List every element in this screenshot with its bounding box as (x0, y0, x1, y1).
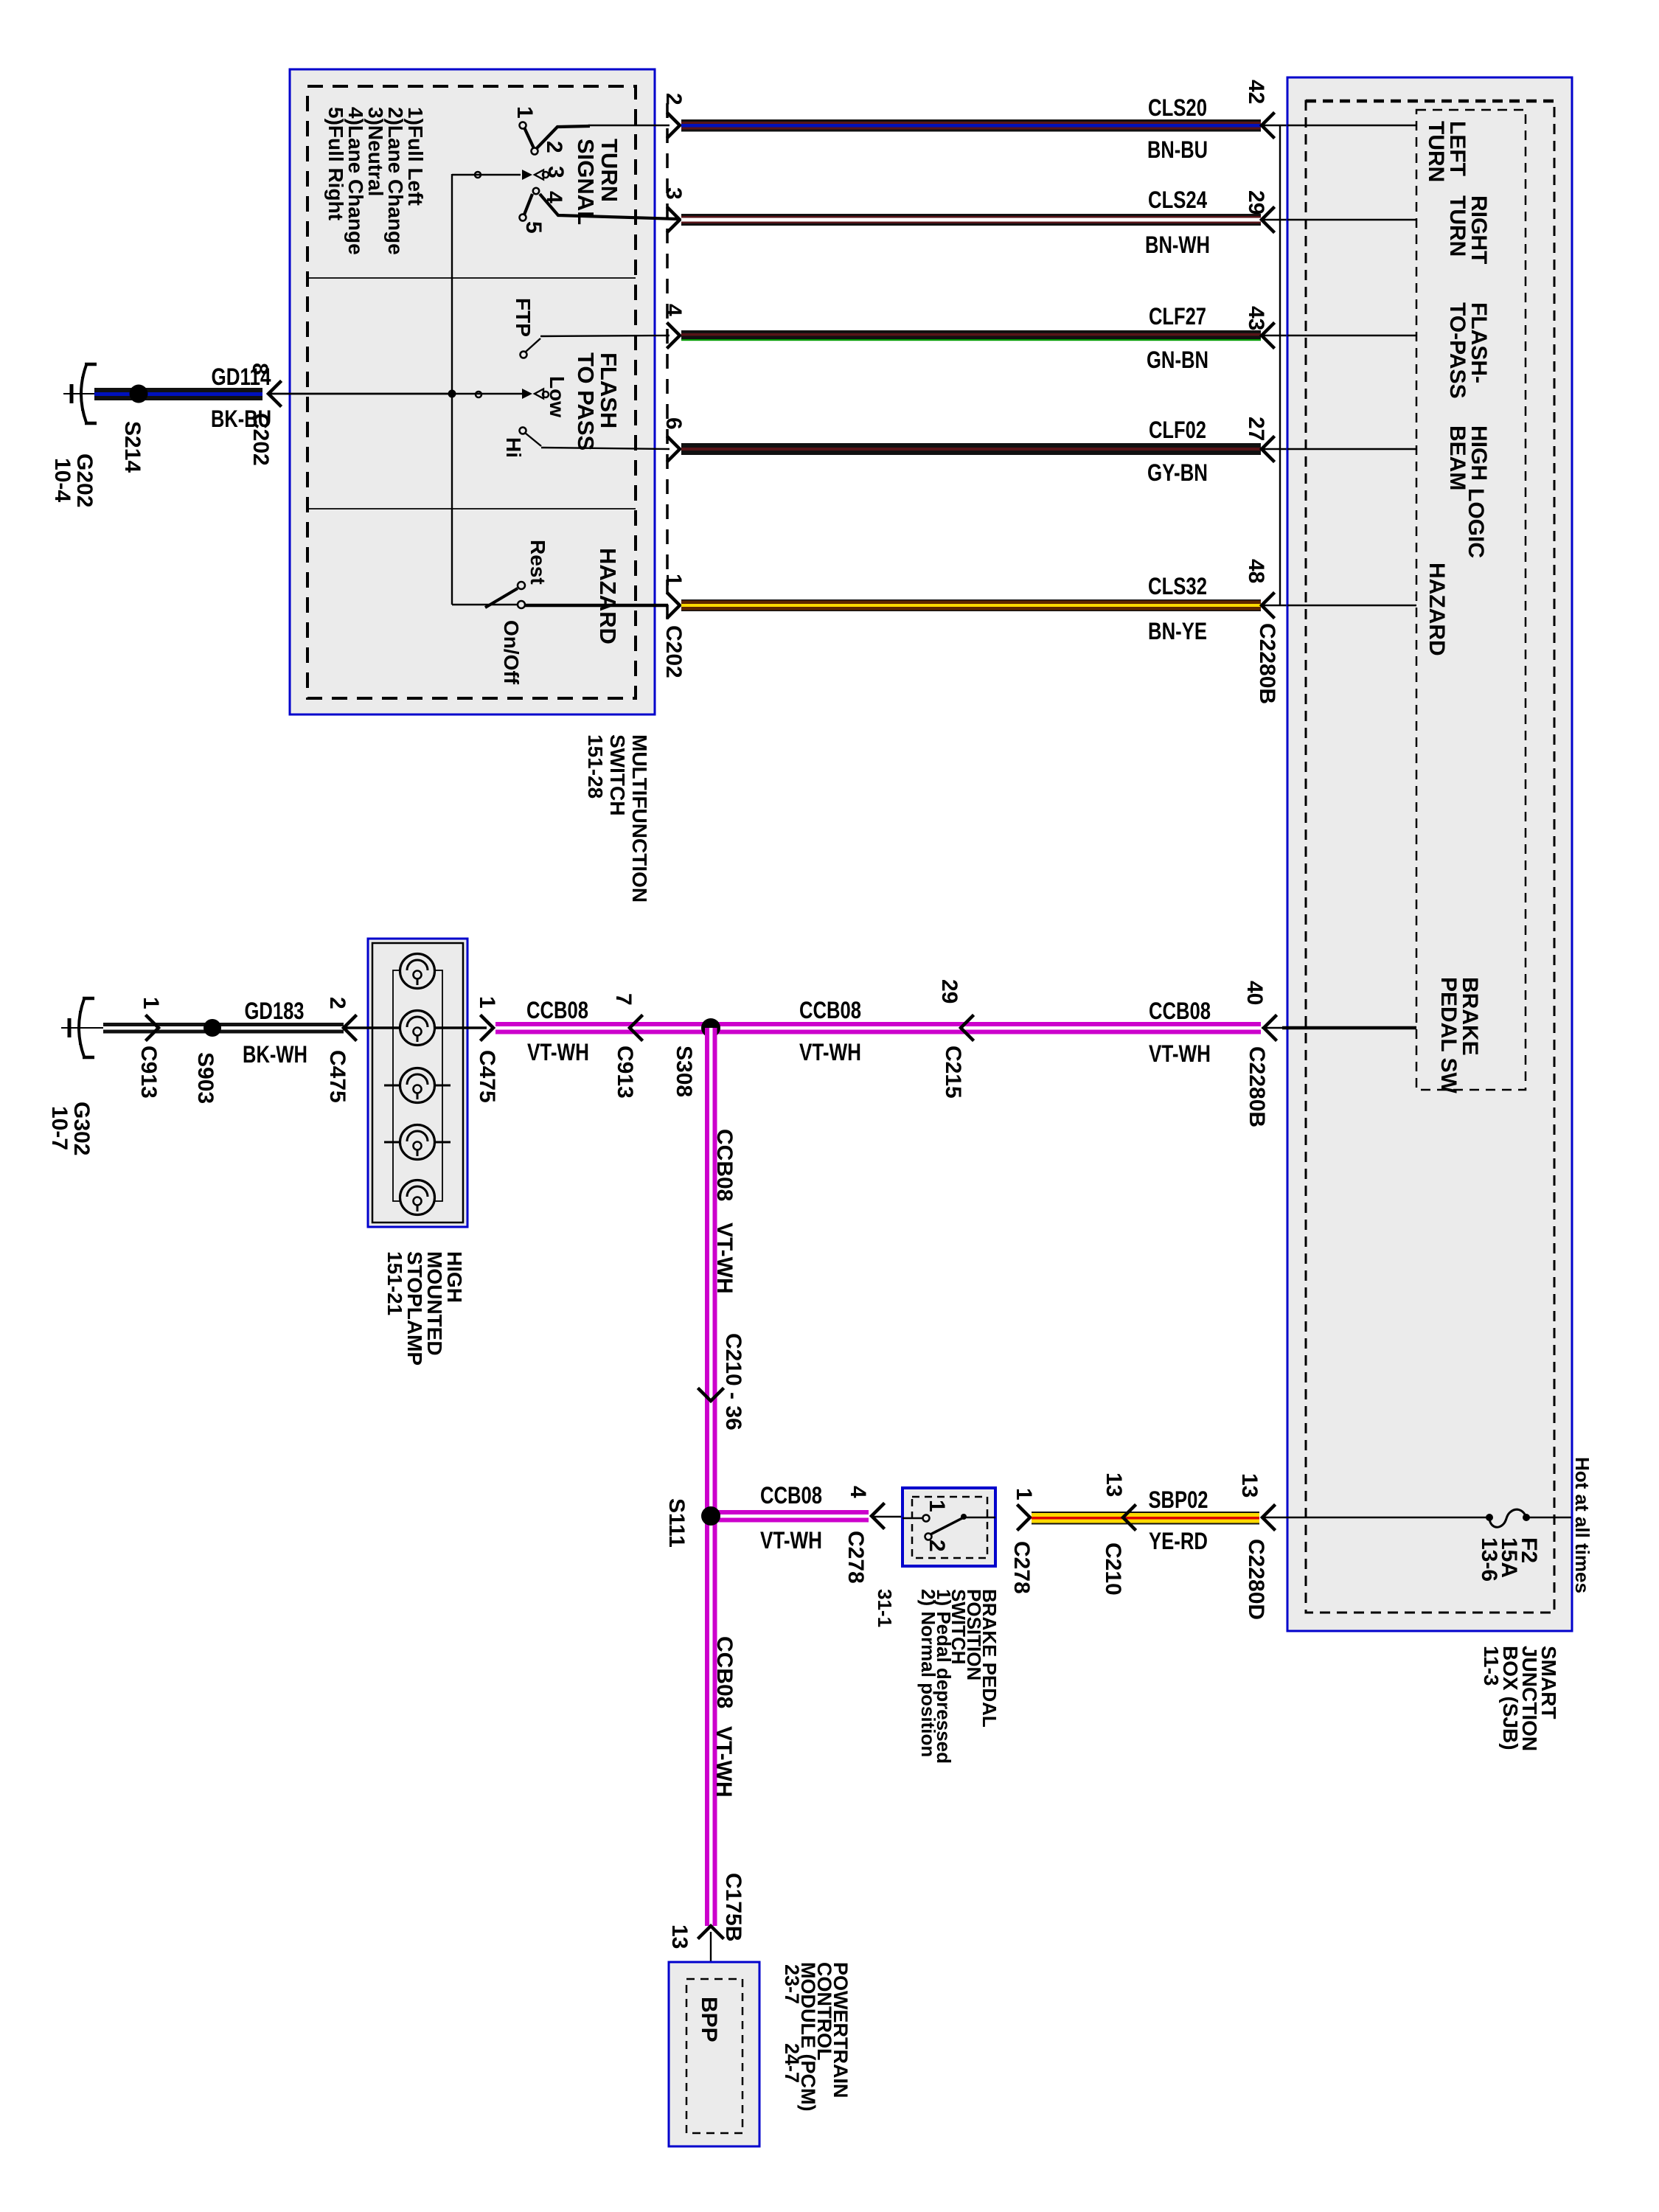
PCM inner dashed outline (686, 1979, 742, 2133)
svg-text:GN-BN: GN-BN (1147, 347, 1208, 373)
svg-text:Hot at all times: Hot at all times (1571, 1457, 1593, 1593)
svg-text:SWITCH: SWITCH (606, 734, 629, 815)
stoplamp feed wire through bulb 2 (344, 1026, 400, 1029)
wire CLS24 BN-WH (681, 214, 1261, 216)
svg-text:TURN: TURN (1424, 121, 1448, 182)
svg-text:CCB08: CCB08 (712, 1129, 737, 1201)
multifunction switch box (MFS) 151-28 (290, 69, 655, 714)
stoplamp bulb 5 (400, 1180, 435, 1215)
svg-text:C215: C215 (941, 1046, 965, 1099)
pin 27 arrow (C2280B) (1262, 437, 1273, 461)
svg-text:MULTIFUNCTION: MULTIFUNCTION (628, 734, 651, 902)
bulb stubs (384, 1085, 400, 1087)
turn signal lower contacts 4-5 (533, 188, 539, 194)
svg-text:Hi: Hi (502, 437, 525, 458)
svg-text:8: 8 (248, 363, 272, 375)
svg-text:C210 - 36: C210 - 36 (721, 1333, 745, 1430)
svg-text:PEDAL SW: PEDAL SW (1436, 977, 1461, 1093)
pin 4 arrow (C202) (668, 324, 680, 347)
turn signal switch contacts (537, 126, 590, 148)
svg-text:BEAM: BEAM (1445, 425, 1470, 490)
flash-to-pass Low pivot (268, 393, 452, 394)
wire from C202 pin 8 into MFS (271, 393, 452, 394)
inline connector C210-36 arrow (699, 1389, 723, 1401)
stoplamp bulb 1 (400, 954, 435, 989)
svg-text:13: 13 (1237, 1473, 1262, 1498)
pin 2 arrow (C475) (344, 1016, 355, 1040)
svg-text:4: 4 (661, 304, 686, 316)
svg-text:HAZARD: HAZARD (1425, 563, 1449, 656)
wire GD183 BK-WH (103, 1023, 344, 1026)
svg-text:BPP: BPP (697, 1997, 721, 2042)
pin 2 arrow (C202) (668, 114, 680, 137)
svg-text:TO PASS: TO PASS (573, 352, 599, 451)
wire GD114 BK-BU (94, 388, 262, 392)
pin 1 arrow (C475 right) (481, 1016, 493, 1040)
svg-text:2: 2 (661, 93, 686, 105)
hazard output wire to pin 1 (bold) (525, 604, 668, 608)
brake pedal position switch box (902, 1488, 995, 1566)
svg-text:CCB08: CCB08 (1149, 998, 1211, 1024)
svg-text:BN-BU: BN-BU (1147, 136, 1208, 163)
svg-text:1: 1 (512, 106, 537, 119)
svg-text:S111: S111 (664, 1498, 689, 1548)
splice S111 (701, 1506, 720, 1526)
svg-text:On/Off: On/Off (500, 620, 523, 685)
svg-text:S903: S903 (193, 1052, 218, 1104)
wire stub into PCM (710, 1932, 712, 1979)
smart junction box (SJB) (1287, 77, 1572, 1631)
svg-text:BN-WH: BN-WH (1145, 232, 1210, 258)
powertrain control module box (669, 1962, 759, 2146)
svg-text:3: 3 (661, 187, 686, 200)
svg-text:6: 6 (661, 417, 686, 430)
hazard switch (452, 604, 517, 605)
splice S308 (701, 1018, 720, 1037)
BPS output line (964, 1517, 995, 1518)
pin 13 arrow (C175B) (699, 1926, 723, 1938)
SJB outer dashed outline top emphasis (1306, 100, 1554, 103)
ground G202 (63, 393, 106, 394)
svg-text:BN-YE: BN-YE (1148, 618, 1207, 644)
svg-text:10-7: 10-7 (47, 1106, 72, 1150)
stoplamp internal bus rectangle (393, 970, 442, 1201)
SJB internal stub high beam (1262, 448, 1416, 450)
wire CLF02 GY-BN (681, 443, 1261, 448)
svg-text:YE-RD: YE-RD (1149, 1528, 1208, 1554)
svg-text:40: 40 (1242, 981, 1267, 1005)
pin 1 arrow (C913) (147, 1016, 159, 1040)
svg-text:7: 7 (611, 993, 636, 1006)
svg-text:29: 29 (937, 979, 961, 1004)
svg-text:C202: C202 (248, 413, 273, 466)
svg-text:TURN: TURN (597, 139, 622, 202)
MFS internal bus wire (common feed) (451, 174, 453, 605)
svg-text:BK-WH: BK-WH (243, 1041, 307, 1068)
svg-text:C2280B: C2280B (1255, 623, 1279, 704)
svg-text:42: 42 (1244, 80, 1268, 104)
pin 7 arrow (C913) (630, 1016, 641, 1040)
svg-text:VT-WH: VT-WH (799, 1039, 861, 1065)
svg-text:151-28: 151-28 (584, 734, 607, 799)
fuse F2 15A symbol (1489, 1509, 1526, 1527)
svg-text:VT-WH: VT-WH (527, 1039, 589, 1065)
SJB stub lines redrawn over fill (1287, 125, 1416, 126)
svg-text:CLF02: CLF02 (1149, 417, 1206, 443)
svg-text:5)Full Right: 5)Full Right (324, 107, 347, 220)
pin 1 arrow (C202) (668, 594, 680, 617)
splice S214 (130, 385, 148, 403)
svg-text:27: 27 (1244, 417, 1268, 441)
wire CLS20 BN-BU (681, 119, 1261, 122)
BPS contact 1 (902, 1517, 923, 1519)
svg-text:2) Normal position: 2) Normal position (917, 1589, 939, 1757)
svg-text:GD183: GD183 (245, 998, 305, 1024)
svg-text:1: 1 (475, 996, 499, 1009)
svg-text:S214: S214 (120, 421, 145, 473)
svg-text:Low: Low (546, 376, 568, 417)
svg-text:C210: C210 (1101, 1543, 1125, 1596)
svg-text:43: 43 (1244, 306, 1268, 330)
svg-text:151-21: 151-21 (383, 1251, 406, 1315)
svg-text:G302: G302 (69, 1102, 94, 1155)
svg-text:FLASH: FLASH (596, 352, 622, 428)
svg-text:13: 13 (667, 1924, 692, 1949)
turn signal pivot (452, 174, 521, 175)
svg-text:10-4: 10-4 (50, 458, 74, 502)
svg-text:C175B: C175B (721, 1873, 745, 1941)
svg-text:CLS32: CLS32 (1148, 573, 1207, 599)
svg-text:VT-WH: VT-WH (1149, 1040, 1211, 1067)
svg-text:Rest: Rest (526, 540, 549, 585)
svg-text:TO-PASS: TO-PASS (1445, 302, 1470, 399)
splice S903 (204, 1019, 221, 1037)
connector C202 dashed line (666, 103, 669, 623)
svg-text:VT-WH: VT-WH (712, 1726, 736, 1798)
MFS section divider (flash to pass / hazard) (307, 508, 636, 509)
svg-text:13-6: 13-6 (1477, 1537, 1501, 1582)
SJB internal stub flash-to-pass (1262, 335, 1416, 336)
svg-text:TURN: TURN (1445, 195, 1470, 257)
svg-text:VT-WH: VT-WH (760, 1527, 822, 1554)
stoplamp bulb 3 (400, 1068, 435, 1103)
svg-text:2: 2 (925, 1540, 949, 1552)
BPS contact 2 and blade (925, 1534, 932, 1540)
wire CCB08 VT-WH (stoplamp to SJB) (495, 1022, 1261, 1026)
svg-text:FTP: FTP (512, 298, 535, 337)
ground G302 (61, 1027, 104, 1029)
svg-text:LOGIC: LOGIC (1464, 488, 1488, 558)
svg-text:1: 1 (139, 997, 163, 1009)
pin 29 arrow (C2280B) (1262, 208, 1273, 232)
svg-text:24-7: 24-7 (781, 2043, 803, 2083)
svg-text:C2280D: C2280D (1244, 1539, 1268, 1620)
MFS section divider (turn signal / flash to pass) (307, 277, 636, 279)
svg-text:CCB08: CCB08 (799, 997, 861, 1023)
svg-text:SBP02: SBP02 (1149, 1486, 1208, 1513)
flash-to-pass Hi contact (520, 428, 526, 434)
BPS inner dashed outline (912, 1497, 987, 1558)
connector C2280B line (1279, 125, 1281, 605)
svg-text:GY-BN: GY-BN (1147, 459, 1208, 486)
svg-text:11-3: 11-3 (1480, 1646, 1503, 1686)
svg-text:C202: C202 (661, 625, 686, 678)
svg-text:29: 29 (1244, 190, 1268, 215)
svg-text:C475: C475 (325, 1050, 349, 1103)
svg-text:C2280B: C2280B (1245, 1046, 1269, 1127)
svg-text:C278: C278 (1009, 1541, 1034, 1594)
svg-text:1: 1 (661, 574, 686, 586)
pin 43 arrow (C2280B) (1262, 324, 1273, 347)
stoplamp bulb 4 (400, 1125, 435, 1160)
svg-text:G202: G202 (72, 453, 97, 507)
pin 8 arrow (C202) (268, 382, 280, 406)
svg-text:CCB08: CCB08 (760, 1482, 822, 1509)
svg-text:CCB08: CCB08 (526, 997, 588, 1023)
stoplamp bulb 2 (400, 1011, 435, 1046)
SJB LOGIC dashed box (1416, 110, 1526, 1090)
svg-text:C913: C913 (136, 1046, 161, 1099)
svg-text:CLS24: CLS24 (1148, 187, 1207, 213)
svg-text:1: 1 (925, 1500, 949, 1512)
svg-text:SIGNAL: SIGNAL (573, 139, 599, 225)
svg-text:CCB08: CCB08 (712, 1636, 737, 1708)
svg-text:2: 2 (325, 997, 349, 1009)
pin 4 arrow (C278) (872, 1504, 883, 1528)
svg-text:CLS20: CLS20 (1148, 94, 1207, 121)
wire CLF27 GN-BN (681, 330, 1261, 333)
pin 13 arrow (C2280D) (1262, 1506, 1274, 1529)
SJB internal stub right turn (1262, 219, 1416, 220)
svg-text:C475: C475 (475, 1050, 499, 1103)
high mounted stoplamp box (368, 939, 467, 1227)
svg-text:23-7: 23-7 (781, 1964, 803, 2004)
wire CLS32 BN-YE (681, 599, 1261, 601)
pin 42 arrow (C2280B) (1262, 114, 1273, 137)
svg-text:2: 2 (542, 141, 566, 153)
svg-text:S308: S308 (672, 1046, 696, 1097)
vertical wire CCB08 VT-WH (S308 to S111 to PCM) (705, 1028, 709, 1926)
fuse F2 15A feed line (1262, 1517, 1489, 1519)
pin 3 arrow (C202) (668, 208, 680, 232)
pin 40 arrow (C2280B) (1264, 1016, 1276, 1040)
svg-text:VT-WH: VT-WH (712, 1222, 737, 1294)
svg-text:C278: C278 (844, 1531, 868, 1584)
pin 29 arrow (C215) (961, 1016, 973, 1040)
branch wire CCB08 VT-WH (S111 to C278) (714, 1510, 869, 1514)
SJB outer dashed outline (1306, 101, 1554, 1613)
svg-text:5: 5 (521, 221, 546, 234)
svg-text:31-1: 31-1 (874, 1589, 896, 1627)
wire SBP02 YE-RD (C278 to C210) (1032, 1512, 1259, 1513)
svg-text:HAZARD: HAZARD (595, 548, 621, 644)
svg-text:48: 48 (1244, 559, 1268, 583)
svg-text:C913: C913 (613, 1046, 637, 1099)
turn signal output wire to pin 3 (bold) (540, 194, 678, 219)
MFS inner dashed outline (307, 86, 636, 698)
pin 48 arrow (C2280B) (1262, 594, 1273, 617)
pin 13 arrow (C210) (1123, 1506, 1135, 1529)
svg-text:CLF27: CLF27 (1149, 303, 1206, 330)
SJB internal stub left turn (1262, 125, 1416, 126)
pin 6 arrow (C202) (668, 437, 680, 461)
svg-text:1: 1 (1012, 1488, 1036, 1500)
pin 1 arrow (C278 right) (1018, 1506, 1030, 1529)
SJB internal stub hazard (1262, 605, 1416, 606)
svg-text:13: 13 (1102, 1472, 1126, 1497)
SJB brake pedal sw stub (bold) (1262, 1027, 1282, 1029)
svg-text:4: 4 (846, 1486, 870, 1498)
wire C278 to brake pedal switch (872, 1516, 902, 1517)
